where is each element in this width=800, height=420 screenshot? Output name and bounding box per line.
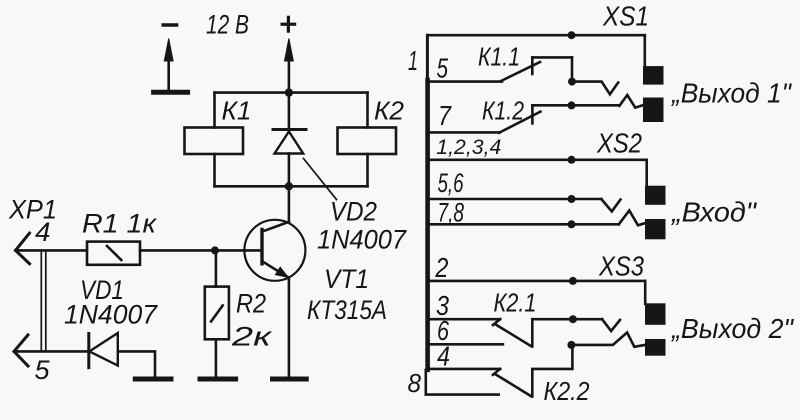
svg-text:„Выход 1": „Выход 1": [671, 78, 792, 109]
jack XS2 body upper: [645, 186, 666, 205]
wire R1 to node: [140, 249, 215, 252]
switch K1.1 arm: [501, 62, 540, 81]
svg-text:„Выход 2": „Выход 2": [671, 313, 794, 344]
minus terminal label: [162, 23, 179, 26]
svg-text:VT1: VT1: [324, 264, 369, 294]
resistor R2: [205, 287, 229, 340]
wire pin5: [429, 80, 502, 83]
node XS2 tip: [568, 220, 576, 228]
node XS2 ring: [568, 195, 576, 203]
node top: [285, 88, 293, 96]
wire VD2 top: [288, 93, 291, 130]
node XS3 sleeve: [569, 277, 577, 285]
wire XS1 sleeve: [427, 34, 644, 37]
svg-text:R1 1к: R1 1к: [82, 209, 157, 239]
node XS3 ring: [569, 315, 577, 323]
node bottom: [285, 182, 293, 190]
wire pin7: [429, 131, 500, 134]
minus supply bar: [154, 90, 188, 95]
wire XS2 sleeve: [429, 159, 647, 162]
switch K2.2 arm: [496, 374, 532, 396]
jack XS3 body upper: [645, 303, 666, 325]
node XS1 tip: [568, 101, 576, 109]
svg-text:5,6: 5,6: [438, 168, 465, 198]
jack XS2 stem: [645, 160, 648, 186]
wire emitter: [288, 277, 291, 376]
wire K2.1 riser: [532, 319, 602, 346]
svg-text:12 В: 12 В: [206, 10, 249, 40]
svg-text:R2: R2: [236, 289, 266, 319]
svg-text:КТ315А: КТ315А: [307, 295, 387, 325]
svg-text:5: 5: [35, 355, 51, 385]
XS2 tip spring: [619, 211, 646, 226]
VD2 leader line: [304, 159, 337, 200]
node XS2 sleeve: [568, 156, 576, 164]
svg-text:7: 7: [438, 100, 452, 131]
wire VD2 bottom: [288, 154, 291, 187]
wire pin4: [429, 368, 500, 371]
svg-text:4: 4: [437, 341, 450, 372]
jack XS1 body upper: [643, 66, 664, 85]
svg-text:1: 1: [408, 45, 418, 76]
XS3 tip spring: [571, 333, 645, 347]
minus supply arrow: [164, 39, 173, 91]
ground VD1: [135, 377, 171, 382]
svg-text:„Вход": „Вход": [671, 197, 757, 228]
wire pin8: [426, 370, 499, 395]
wire K2 bottom stub: [366, 154, 369, 186]
svg-text:К2: К2: [374, 96, 405, 126]
wire pin5 to VD1: [14, 350, 89, 353]
svg-text:5: 5: [437, 53, 449, 84]
relay coil K2: [338, 128, 397, 155]
svg-text:1N4007: 1N4007: [317, 225, 407, 255]
svg-text:VD2: VD2: [330, 197, 377, 227]
wire K2.2 riser: [532, 345, 572, 397]
wire bottom rail: [215, 185, 368, 188]
bus line: [425, 80, 430, 370]
jack XS3 stem: [644, 281, 647, 304]
jack XS1 stem: [643, 35, 646, 67]
wire pins 5,6: [429, 198, 601, 201]
diode VD2: [273, 130, 306, 154]
svg-text:2: 2: [435, 252, 449, 283]
XS1 tip spring: [619, 95, 643, 108]
XP1 pin 4 arrow: [16, 233, 30, 264]
XS2 ring contact: [601, 199, 620, 212]
svg-text:1,2,3,4: 1,2,3,4: [436, 135, 501, 159]
switch K2.2 contact: [493, 369, 500, 375]
plus terminal label: [281, 16, 297, 33]
svg-text:8: 8: [408, 368, 422, 398]
wire top rail: [215, 91, 368, 94]
jack XS2 body lower: [645, 219, 666, 239]
XP1 pin 5 arrow: [14, 335, 28, 366]
svg-text:2к: 2к: [231, 322, 273, 352]
wire pin4 to R1: [16, 249, 88, 252]
transistor VT1: [244, 220, 305, 281]
plus supply arrow: [285, 39, 294, 93]
XS1 ring contact: [572, 82, 618, 95]
node XS1 ring: [568, 78, 576, 86]
node XS3 tip: [567, 341, 575, 349]
wire pin3: [429, 318, 500, 321]
wire node to R2: [215, 250, 218, 286]
switch K2.1 contact: [493, 319, 500, 325]
svg-text:К2.2: К2.2: [544, 376, 590, 406]
ground emitter: [273, 377, 307, 382]
svg-text:XS2: XS2: [596, 128, 642, 159]
wire bus top link: [426, 35, 429, 82]
wire K1 bottom stub: [213, 154, 216, 186]
XP1 body lines: [41, 250, 46, 351]
wire node to base: [215, 249, 262, 252]
wire K1 top stub: [213, 93, 216, 128]
switch K1.2 contact: [532, 105, 619, 123]
wire pin6: [429, 343, 503, 346]
wire XS3 sleeve: [429, 280, 645, 283]
relay coil K1: [185, 128, 244, 155]
switch K2.1 arm: [496, 324, 532, 346]
wire pins 7,8: [429, 223, 619, 226]
svg-text:4: 4: [35, 217, 51, 247]
wire collector: [288, 186, 291, 222]
diode VD1: [89, 333, 118, 368]
svg-text:XS1: XS1: [602, 1, 649, 32]
wire R2 to ground: [215, 339, 218, 376]
wire K2 top stub: [366, 93, 369, 128]
svg-text:К1.2: К1.2: [482, 96, 524, 126]
node base: [211, 246, 219, 254]
wire VD1 to ground: [118, 351, 155, 376]
ground R2: [200, 377, 236, 382]
resistor R1: [87, 242, 140, 265]
jack XS3 body lower: [645, 339, 666, 356]
XS3 ring contact: [602, 319, 620, 331]
wire K1.1 down: [571, 57, 574, 81]
jack XS1 body lower: [643, 98, 664, 123]
svg-text:XS3: XS3: [598, 251, 644, 282]
node XS1 sleeve: [568, 31, 576, 39]
svg-text:К2.1: К2.1: [494, 288, 537, 318]
svg-text:К1.1: К1.1: [478, 42, 520, 72]
switch K1.1 contact: [532, 57, 572, 74]
switch K1.2 arm: [499, 112, 541, 133]
svg-text:1N4007: 1N4007: [64, 300, 158, 330]
svg-text:К1: К1: [222, 96, 252, 126]
